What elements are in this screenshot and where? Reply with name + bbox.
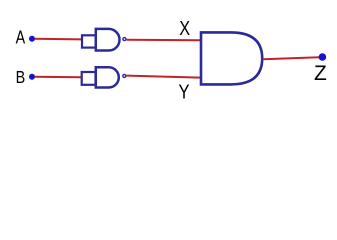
svg-text:X: X <box>179 17 190 39</box>
node B <box>29 74 35 80</box>
wire Z output <box>263 57 320 59</box>
label B <box>16 68 26 88</box>
inverter U2 body (NAND shape) <box>96 67 119 87</box>
wire A to U1 <box>35 38 82 41</box>
svg-text:Y: Y <box>178 80 189 103</box>
inverter U2 bubble <box>123 74 126 77</box>
node A <box>29 36 35 42</box>
label A <box>16 27 26 48</box>
svg-text:B: B <box>16 68 26 88</box>
label Z <box>314 62 327 85</box>
label X <box>179 17 190 39</box>
svg-text:A: A <box>16 27 26 48</box>
wire X : U1 to U3 <box>127 39 201 42</box>
wire Y : U2 to U3 <box>126 76 200 78</box>
inverter U1 bubble <box>123 38 126 41</box>
node Z <box>319 53 327 61</box>
inverter U1 body (NAND shape) <box>96 29 120 51</box>
label Y <box>178 80 189 103</box>
inverter U2 input tie box <box>82 72 96 85</box>
inverter U1 input tie box <box>82 35 96 47</box>
wire B to U2 <box>35 76 82 78</box>
AND gate U3 <box>201 32 262 84</box>
svg-text:Z: Z <box>314 62 327 85</box>
